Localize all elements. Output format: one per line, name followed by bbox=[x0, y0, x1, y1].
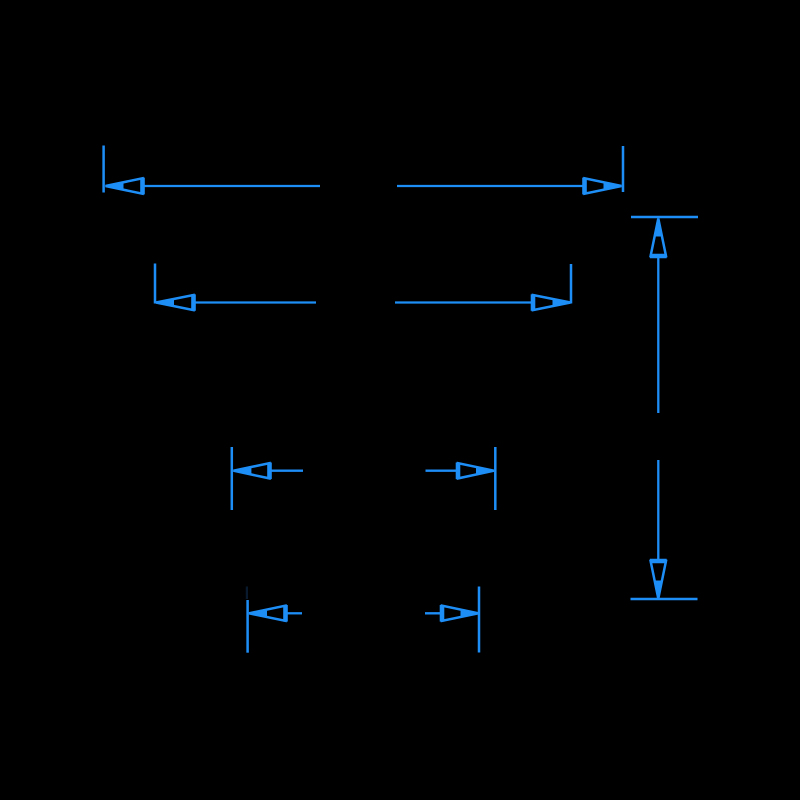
dimension D: right arrowhead solid wedge bbox=[476, 467, 494, 474]
dimension E: right arrowhead solid wedge bbox=[461, 610, 479, 617]
dimension C: bottom arrowhead (open triangle, pointing down) bbox=[651, 561, 666, 599]
dimension A: right extension line bbox=[622, 146, 625, 192]
dimension E: left arrowhead solid wedge bbox=[249, 610, 267, 617]
dimension A: right arrowhead (open triangle) bbox=[585, 178, 622, 193]
dimension C: bottom extension line bbox=[631, 598, 698, 601]
dimension B: right extension line bbox=[570, 264, 573, 304]
dimension B: left arrowhead back bar bbox=[191, 294, 196, 311]
dimension E: left tail line bbox=[286, 612, 302, 614]
dimension A (overall width, top): left extension line bbox=[102, 146, 105, 193]
dimension B: right arrowhead back bar bbox=[531, 294, 536, 311]
dimension B (inner width, second row): left extension line bbox=[154, 264, 157, 304]
dimension B: dimension line right segment bbox=[395, 301, 533, 303]
dimension D (inner feature width, third row): left extension line bbox=[231, 447, 234, 510]
dimension C: top arrowhead solid wedge bbox=[655, 219, 662, 237]
dimension A: left arrowhead solid wedge bbox=[106, 182, 124, 189]
dimension E: right arrowhead back bar bbox=[440, 605, 445, 622]
dimension E: right arrowhead (open triangle) bbox=[442, 606, 479, 621]
dimension C: bottom arrowhead back bar bbox=[650, 559, 667, 564]
dimension E: left arrowhead back bar bbox=[283, 605, 288, 622]
dimension E: faint upper stub of left extension line bbox=[246, 587, 248, 600]
dimension D: right tail line bbox=[426, 470, 458, 472]
dimension D: left arrowhead back bar bbox=[267, 463, 272, 480]
dimension A: left arrowhead back bar bbox=[140, 178, 145, 195]
dimension D: left tail line bbox=[270, 470, 304, 472]
dimension A: right arrowhead solid wedge bbox=[604, 182, 622, 189]
dimension A: dimension line right segment bbox=[397, 185, 584, 187]
dimension A: dimension line left segment bbox=[143, 185, 320, 187]
dimension C: dimension line lower segment bbox=[657, 460, 659, 561]
dimension D: right arrowhead (open triangle) bbox=[458, 463, 494, 478]
dimension E: right extension line bbox=[478, 587, 481, 653]
dimension C: top arrowhead (open triangle, pointing up) bbox=[651, 219, 666, 257]
dimension D: right extension line bbox=[494, 447, 497, 510]
dimension E: right tail line bbox=[425, 612, 442, 614]
dimension D: left arrowhead solid wedge bbox=[233, 467, 251, 474]
dimension B: left arrowhead (open triangle) bbox=[156, 295, 194, 310]
dimension B: right arrowhead solid wedge bbox=[553, 299, 571, 306]
dimension E: left arrowhead (open triangle) bbox=[249, 606, 286, 621]
dimension C: bottom arrowhead solid wedge bbox=[655, 581, 662, 599]
dimension C (overall height, right side): top extension line bbox=[631, 216, 698, 219]
dimension B: right arrowhead (open triangle) bbox=[533, 295, 571, 310]
dimension C: dimension line upper segment bbox=[657, 257, 659, 414]
dimension A: left arrowhead (open triangle) bbox=[106, 178, 143, 193]
dimension D: right arrowhead back bar bbox=[456, 463, 461, 480]
dimension A: right arrowhead back bar bbox=[582, 178, 587, 195]
dimension D: left arrowhead (open triangle) bbox=[233, 463, 269, 478]
dimension B: left arrowhead solid wedge bbox=[156, 299, 174, 306]
dimension B: dimension line left segment bbox=[194, 301, 316, 303]
dimension C: top arrowhead back bar bbox=[650, 254, 667, 259]
dimension E (inner feature width, bottom row): left extension line bbox=[246, 600, 249, 653]
